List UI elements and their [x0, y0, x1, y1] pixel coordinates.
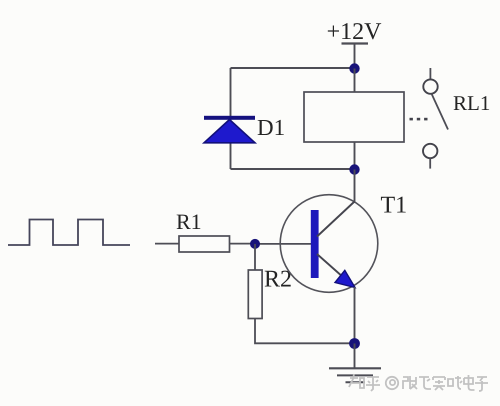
char 战 [448, 376, 462, 389]
wire collector node to transistor [354, 170, 356, 202]
resistor R1 body [179, 236, 230, 252]
relay contact top circle [423, 79, 437, 93]
transistor T1 body circle [280, 195, 378, 293]
relay contact bottom stem [429, 158, 431, 168]
wire base node down to R2 [254, 244, 256, 270]
svg-text:R1: R1 [176, 209, 202, 234]
char 子 [475, 377, 488, 391]
junction top node [349, 63, 359, 73]
junction ground node [349, 338, 360, 349]
relay coil RL1 box [304, 92, 404, 142]
char @ [386, 377, 398, 389]
wire input terminal to R1 [155, 243, 179, 245]
junction collector node [349, 164, 359, 174]
resistor R2 body [248, 270, 262, 319]
transistor T1 collector line [317, 202, 355, 237]
char 飞 [419, 377, 431, 389]
junction base node [250, 239, 260, 249]
svg-text:RL1: RL1 [453, 91, 490, 115]
ground bar 1 [329, 367, 381, 369]
char 知 [349, 374, 364, 388]
diode D1 anode triangle [204, 120, 255, 143]
dotted link relay to arm [410, 118, 428, 121]
+12V terminal bar [342, 42, 369, 44]
wire top node to diode branch (horizontal) [231, 67, 355, 69]
wire ground node to ground symbol [354, 344, 356, 369]
transistor T1 emitter arrow [335, 270, 355, 287]
char 张 [403, 376, 417, 389]
transistor T1 base bar [311, 210, 319, 278]
char 实 [433, 377, 445, 390]
ground bar 2 [337, 374, 373, 376]
wire diode branch bottom (horizontal) [231, 168, 355, 170]
wire R1 to base node [230, 243, 256, 245]
ground bar 3 [346, 381, 366, 383]
relay contact bottom circle [423, 144, 437, 158]
wire top node to relay coil [354, 69, 356, 93]
transistor T1 emitter line [317, 254, 348, 282]
svg-text:T1: T1 [381, 193, 408, 219]
watermark 知乎 @张飞实战电子 [349, 374, 488, 391]
diode D1 cathode bar [204, 116, 255, 120]
wire diode branch left vertical [230, 68, 232, 169]
wire +12V stub to top node [354, 44, 356, 69]
relay switch arm [432, 94, 449, 130]
wire emitter to ground node [354, 287, 356, 344]
char 电 [464, 375, 475, 390]
relay contact top stem [429, 68, 431, 79]
svg-text:D1: D1 [257, 115, 285, 140]
char 乎 [366, 377, 380, 391]
wire relay coil to collector node [354, 142, 356, 170]
wire base node to transistor base [255, 243, 311, 245]
svg-text:+12V: +12V [327, 19, 383, 45]
wire R2 to ground run [255, 319, 355, 344]
input square wave [8, 220, 130, 246]
